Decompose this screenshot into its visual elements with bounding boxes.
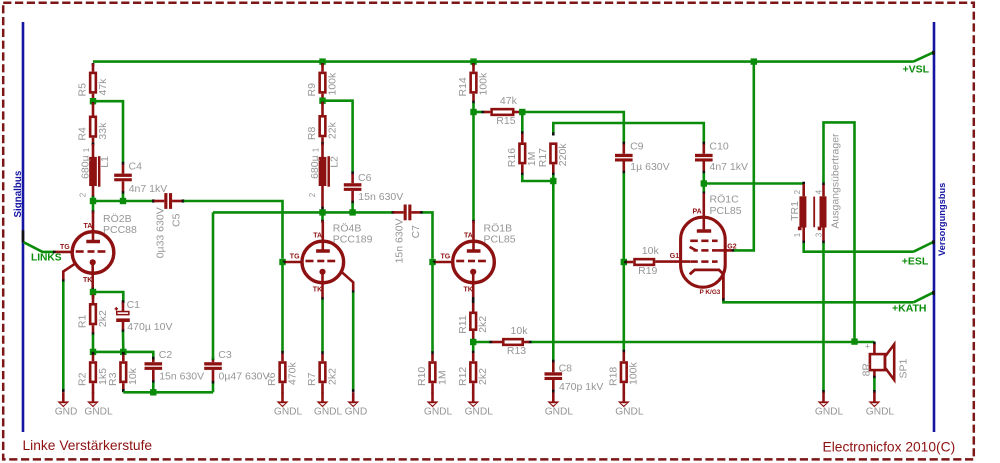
wire TR1 pin3 to GNDL — [822, 243, 825, 391]
wire +KATH — [723, 301, 913, 303]
svg-text:R5: R5 — [77, 83, 89, 97]
svg-text:R10: R10 — [416, 367, 428, 386]
svg-text:GNDL: GNDL — [465, 406, 494, 417]
wire R9/R8 node to C6 — [323, 101, 353, 173]
resistor R3 — [107, 355, 139, 391]
wire cathode node2 bus — [93, 352, 153, 358]
wire speaker to GNDL — [873, 378, 876, 391]
wire tube1 cathode node — [91, 290, 94, 292]
pin tick R18 top — [622, 350, 625, 353]
pin tick R4 top — [92, 102, 95, 105]
svg-text:R19: R19 — [638, 265, 657, 277]
svg-text:C9: C9 — [630, 140, 644, 152]
capacitor C4 — [114, 160, 167, 195]
pin tick C4 top — [122, 162, 125, 165]
svg-text:PCC88: PCC88 — [103, 224, 137, 236]
wire +KATH bus diagonal — [914, 293, 934, 303]
pin tube2 grid — [285, 261, 302, 264]
svg-text:0µ47 630V: 0µ47 630V — [219, 371, 270, 383]
wire R11 node to R13 — [473, 341, 490, 344]
ground GNDL R10 — [424, 392, 453, 417]
junction — [470, 339, 476, 345]
svg-text:Electronicfox 2010(C): Electronicfox 2010(C) — [823, 440, 956, 455]
pin tube1 grid — [56, 251, 73, 254]
ground GND stage1 — [55, 392, 78, 417]
wire C4 to bus — [122, 194, 125, 202]
wire C10 to anode node — [702, 173, 705, 183]
ground GNDL R12 — [465, 392, 494, 417]
resistor R7 — [306, 354, 338, 394]
svg-text:10k: 10k — [127, 367, 139, 385]
wire grid2 down to R6 — [281, 262, 284, 352]
pin tick C5 right — [182, 199, 185, 202]
pin tube1 shield diagonal — [63, 263, 75, 280]
wire G2 to top bus — [734, 62, 754, 251]
pin tick pentode PA — [702, 191, 705, 194]
wire C9 to R19 node — [622, 173, 625, 262]
pin tick C6 top — [351, 171, 354, 174]
capacitor C1 — [115, 299, 173, 333]
pin tick SP1 gnd — [873, 390, 876, 393]
pin tick R15 left — [481, 111, 484, 114]
pin tick R13 left — [489, 341, 492, 344]
bus connection tick +VSL — [932, 51, 935, 55]
svg-text:TA: TA — [84, 223, 93, 230]
pin tick C4 bottom — [122, 191, 125, 194]
wire R11 node to R12 — [472, 342, 475, 352]
pin tick R16 bottom — [521, 173, 524, 176]
ground GNDL R7 — [314, 392, 343, 417]
svg-text:470p 1kV: 470p 1kV — [559, 381, 603, 393]
junction — [550, 178, 556, 184]
svg-text:1: 1 — [793, 232, 802, 237]
pin tick TR1 pin4 — [822, 182, 825, 185]
pin tick TR1 pin3 — [822, 241, 825, 244]
svg-text:C5: C5 — [171, 213, 183, 227]
svg-text:R16: R16 — [506, 148, 518, 167]
pin tick tube1 TK — [91, 288, 94, 291]
svg-text:TR1: TR1 — [789, 201, 801, 221]
svg-text:GNDL: GNDL — [314, 406, 343, 417]
pin tick L1 pin2 — [92, 196, 95, 199]
ground GND stage2 — [345, 392, 368, 417]
wire anode node to TR1 — [704, 182, 804, 185]
resistor R4 — [77, 103, 109, 145]
wire R17 top loop — [553, 123, 704, 142]
junction — [621, 259, 627, 265]
pin tick R9 top — [321, 63, 324, 66]
wire R16 bottom to R17 — [522, 175, 553, 181]
svg-text:R14: R14 — [457, 77, 469, 96]
svg-text:TK: TK — [83, 277, 92, 284]
title Linke Verstärkerstufe — [23, 438, 153, 453]
svg-text:GNDL: GNDL — [866, 406, 895, 417]
svg-text:Signalbus: Signalbus — [13, 170, 24, 217]
bus Versorgungsbus line — [933, 22, 936, 432]
svg-text:8R: 8R — [860, 363, 872, 377]
resistor R18 — [607, 352, 639, 393]
svg-text:TA: TA — [313, 232, 322, 239]
pin tick L2 pin1 — [321, 142, 324, 145]
svg-text:TK: TK — [313, 287, 322, 294]
pin tick C8 bottom — [552, 390, 555, 393]
svg-text:470k: 470k — [286, 361, 298, 385]
pin tick C5 left — [152, 199, 155, 202]
junction — [90, 349, 96, 355]
svg-text:R2: R2 — [77, 372, 89, 386]
svg-text:2k2: 2k2 — [477, 316, 489, 333]
pin tick C7 left — [392, 211, 395, 214]
svg-text:0µ33 630V: 0µ33 630V — [154, 207, 166, 258]
pin tick R16 top — [521, 131, 524, 134]
inductor L1 — [78, 144, 111, 197]
wire anode1 bus left — [93, 200, 153, 203]
junction — [279, 259, 285, 265]
wire C3 riser — [212, 382, 215, 393]
svg-text:2: 2 — [78, 192, 87, 197]
wire L1 to anode bus — [92, 197, 95, 202]
wire +VSL top bus — [93, 60, 914, 63]
capacitor C2 — [145, 349, 205, 383]
pin tick GND stage2 — [352, 389, 355, 392]
wire R5/R4 node to C4 — [93, 101, 123, 162]
resistor R16 — [506, 134, 538, 174]
svg-text:4: 4 — [815, 189, 824, 194]
svg-text:2k2: 2k2 — [477, 368, 489, 385]
junction — [120, 198, 126, 204]
svg-text:470µ 10V: 470µ 10V — [127, 321, 172, 333]
svg-text:R13: R13 — [507, 345, 526, 357]
pin tick C7 right — [420, 211, 423, 214]
pin tick R10 top — [431, 351, 434, 354]
resistor R9 — [306, 64, 338, 100]
svg-text:GNDL: GNDL — [424, 406, 453, 417]
svg-text:R8: R8 — [306, 127, 318, 141]
svg-text:GNDL: GNDL — [274, 406, 303, 417]
pin tick tube2 TK — [321, 297, 324, 300]
svg-text:R3: R3 — [107, 372, 119, 386]
svg-text:10k: 10k — [642, 245, 660, 257]
svg-text:C6: C6 — [358, 172, 372, 184]
bus Versorgungsbus label — [937, 183, 947, 256]
wire C3 to grid bus2 — [212, 212, 215, 359]
svg-text:15n 630V: 15n 630V — [394, 218, 406, 263]
net label +KATH — [892, 302, 927, 314]
junction — [349, 209, 355, 215]
ground GNDL R18 — [615, 392, 644, 417]
resistor R6 — [266, 354, 298, 394]
capacitor C6 — [344, 172, 403, 203]
svg-text:PA: PA — [693, 208, 702, 215]
pin tick R1 top — [92, 295, 95, 298]
svg-text:TG: TG — [60, 244, 70, 251]
pin tube2 shield diagonal — [340, 271, 353, 291]
pin tick tube1 TA — [92, 210, 95, 213]
svg-text:TG: TG — [441, 254, 451, 261]
net label +VSL — [903, 63, 930, 75]
pin tick TR1 pin1 — [802, 241, 805, 244]
svg-text:L1: L1 — [99, 156, 111, 168]
pin tick C10 top — [702, 142, 705, 145]
bus connection tick LINKS — [22, 230, 25, 242]
bus Signalbus line — [22, 22, 25, 432]
svg-text:C8: C8 — [559, 363, 573, 375]
svg-text:2: 2 — [793, 189, 802, 194]
wire C7 to tube3 grid — [423, 212, 433, 258]
pin tick tube3 TG — [433, 261, 436, 264]
svg-text:L2: L2 — [328, 156, 340, 168]
ground GNDL TR1 — [815, 392, 844, 417]
resistor R11 — [457, 313, 489, 340]
svg-text:R17: R17 — [537, 148, 549, 167]
svg-text:R6: R6 — [266, 372, 278, 386]
svg-text:680µ: 680µ — [79, 155, 91, 179]
pin tick SP1 minus — [873, 376, 876, 379]
pin tick R2 top — [92, 352, 95, 355]
pin tick TR1 gnd — [822, 390, 825, 393]
resistor R12 — [457, 353, 489, 394]
resistor R5 — [77, 64, 109, 102]
svg-text:2k2: 2k2 — [97, 310, 109, 327]
pin tick R14 top — [472, 63, 475, 66]
pin tube3 grid — [435, 261, 452, 264]
wire R19 node to R18 — [622, 262, 625, 351]
wire R1 to node2 — [92, 335, 95, 352]
capacitor C3 — [204, 349, 269, 383]
capacitor C8 — [545, 362, 604, 393]
pin tick R13 right — [529, 341, 532, 344]
wire stage1 gnd bus — [123, 391, 213, 394]
svg-text:R15: R15 — [496, 115, 515, 127]
pin tick tube3 TK — [472, 297, 475, 300]
pin tick tube2 TG — [283, 261, 286, 264]
net label +ESL — [902, 255, 929, 267]
junction — [319, 58, 325, 64]
svg-text:PCL85: PCL85 — [484, 234, 516, 246]
pin tick C10 bottom — [702, 171, 705, 174]
pin tick C9 top — [622, 142, 625, 145]
wire +ESL bus diagonal — [914, 242, 934, 252]
svg-text:1M: 1M — [436, 370, 448, 385]
svg-text:47k: 47k — [500, 95, 518, 107]
svg-text:680µ: 680µ — [309, 155, 321, 179]
svg-text:22k: 22k — [326, 121, 338, 139]
pin tick L1 pin1 — [92, 143, 95, 146]
svg-text:C7: C7 — [410, 225, 422, 239]
pin tube3 cathode to R11 — [472, 300, 475, 312]
resistor R2 — [77, 355, 109, 394]
pin tick R7 top — [321, 351, 324, 354]
pin tick tube1 TG — [53, 251, 56, 254]
svg-text:GNDL: GNDL — [84, 406, 113, 417]
wire TR1 pin4 loop — [824, 122, 855, 341]
resistor R1 — [77, 295, 109, 334]
svg-text:4n7 1kV: 4n7 1kV — [129, 183, 168, 195]
svg-text:TG: TG — [290, 254, 300, 261]
resistor R17 — [537, 143, 569, 174]
junction — [470, 109, 476, 115]
title Electronicfox 2010(C) — [823, 440, 956, 455]
capacitor C5 — [154, 193, 183, 258]
wire C1 to node2 — [122, 332, 125, 352]
wire R15 to C9 — [522, 112, 624, 142]
pin tick R12 top — [472, 351, 475, 354]
pin tick C3 bottom — [212, 380, 215, 383]
tube RO1C pentode — [655, 193, 741, 299]
svg-text:C2: C2 — [159, 349, 173, 361]
transformer TR1 — [789, 133, 842, 242]
svg-text:GNDL: GNDL — [545, 406, 574, 417]
wire shield1 to GND — [62, 282, 65, 391]
resistor R13 — [492, 325, 530, 357]
bus connection tick +KATH — [932, 291, 935, 295]
svg-text:PCC189: PCC189 — [333, 234, 373, 246]
svg-text:R18: R18 — [607, 367, 619, 386]
pin tick R11 top — [472, 300, 475, 303]
svg-text:TA: TA — [464, 232, 473, 239]
pin tick C2 top — [152, 357, 155, 360]
pin tick L2 pin2 — [321, 207, 324, 210]
pin tick C3 top — [212, 357, 215, 360]
svg-text:1µ 630V: 1µ 630V — [630, 161, 669, 173]
wire C2 to gnd bus — [152, 383, 155, 393]
junction — [150, 389, 156, 395]
svg-text:220k: 220k — [557, 143, 569, 167]
pin tick C2 bottom — [152, 380, 155, 383]
junction — [751, 58, 757, 64]
svg-text:C3: C3 — [218, 349, 232, 361]
pin tick C9 bottom — [622, 171, 625, 174]
svg-text:10k: 10k — [511, 325, 529, 337]
junction — [120, 349, 126, 355]
capacitor C10 — [695, 140, 748, 173]
pin tick tube1 shield — [62, 279, 65, 282]
junction — [701, 180, 707, 186]
ground GNDL SP1 — [866, 392, 895, 417]
pin tick C1 bottom — [122, 329, 125, 332]
pin tick tube2 shield — [352, 290, 355, 293]
resistor R15 — [484, 95, 521, 127]
capacitor C7 — [393, 205, 422, 264]
svg-text:Ausgangsübertrager: Ausgangsübertrager — [830, 133, 842, 229]
pin tick R8 top — [321, 102, 324, 105]
wire anode2 junction to TA pin — [321, 212, 324, 220]
svg-text:GND: GND — [345, 406, 368, 417]
svg-text:PCL85: PCL85 — [710, 205, 742, 217]
pin tick pentode K/G3 — [722, 298, 725, 301]
pin tick R6 top — [281, 351, 284, 354]
pin tick R17 top — [552, 132, 555, 135]
svg-text:1: 1 — [82, 147, 91, 152]
junction — [470, 58, 476, 64]
svg-text:+VSL: +VSL — [903, 63, 930, 75]
junction — [429, 259, 435, 265]
svg-text:R1: R1 — [77, 315, 89, 329]
wire R13 to speaker — [532, 341, 875, 344]
pin tick C8 top — [552, 360, 555, 363]
resistor R10 — [416, 354, 448, 394]
pin tick R5 top — [92, 63, 95, 66]
svg-text:Versorgungsbus: Versorgungsbus — [937, 183, 947, 256]
capacitor C9 — [615, 140, 670, 173]
pin tick R3 top — [122, 352, 125, 355]
pin tick R17 bottom — [552, 173, 555, 176]
svg-text:15n 630V: 15n 630V — [358, 191, 403, 203]
pin tick C1 top — [122, 300, 125, 303]
svg-text:R7: R7 — [306, 372, 318, 386]
wire tube2 cathode to R7 — [321, 300, 324, 353]
wire +VSL bus entry diagonal — [914, 52, 934, 61]
wire cathode1 to C1 — [93, 292, 123, 303]
svg-text:SP1: SP1 — [897, 358, 909, 378]
junction — [519, 109, 525, 115]
pin tick R19 left — [624, 261, 627, 264]
junction — [90, 98, 96, 104]
svg-text:C1: C1 — [127, 299, 141, 311]
svg-text:100k: 100k — [477, 72, 489, 96]
svg-text:R11: R11 — [457, 315, 469, 334]
pin tick tube2 TA — [321, 220, 324, 223]
wire node to tube3 anode — [472, 112, 475, 221]
svg-text:4n7 1kV: 4n7 1kV — [710, 161, 749, 173]
pin tick tube3 TA — [472, 220, 475, 223]
svg-text:+KATH: +KATH — [892, 302, 927, 314]
svg-text:C4: C4 — [129, 160, 143, 172]
svg-text:LINKS: LINKS — [31, 253, 62, 264]
pin tick R15 right — [519, 111, 522, 114]
svg-text:Linke Verstärkerstufe: Linke Verstärkerstufe — [23, 438, 153, 453]
speaker SP1 — [860, 341, 909, 380]
wire R15R16 node down — [521, 112, 524, 132]
pin tick pentode G2 — [732, 249, 735, 252]
svg-text:2: 2 — [308, 192, 317, 197]
wire +ESL — [804, 243, 914, 252]
pin tick GND stage1 — [62, 389, 65, 392]
tube RO1B — [441, 221, 516, 298]
svg-text:3: 3 — [815, 232, 824, 237]
svg-text:47k: 47k — [97, 78, 109, 96]
svg-text:C10: C10 — [709, 140, 728, 152]
junction — [319, 98, 325, 104]
resistor R19 — [627, 245, 660, 277]
resistor R14 — [457, 64, 489, 102]
pin tick R3 bottom — [122, 389, 125, 392]
wire anode node down — [702, 184, 705, 192]
svg-text:R4: R4 — [77, 127, 89, 141]
svg-text:R9: R9 — [306, 83, 318, 97]
wire R17 bottom to C8 — [552, 175, 555, 361]
svg-text:GNDL: GNDL — [815, 406, 844, 417]
tube RO2B — [60, 212, 137, 289]
ground GNDL R6 — [274, 392, 303, 417]
junction — [90, 289, 96, 295]
wire anode1 junction to TA pin — [92, 201, 95, 211]
wire C6 to bus — [351, 203, 354, 212]
pin tick TR1 pin2 — [802, 182, 805, 185]
pin tick R11 bottom — [472, 339, 475, 342]
svg-text:GNDL: GNDL — [615, 406, 644, 417]
net label LINKS — [31, 253, 62, 264]
svg-text:100k: 100k — [326, 72, 338, 96]
wire grid3 down to R10 — [431, 262, 434, 352]
svg-text:+ESL: +ESL — [902, 255, 929, 267]
pin tick R9 bottom — [321, 98, 324, 101]
pin tick C6 bottom — [351, 201, 354, 204]
ground GNDL R2 — [84, 392, 113, 417]
inductor L2 — [308, 144, 341, 208]
svg-text:+: + — [865, 341, 870, 351]
svg-text:P K/G3: P K/G3 — [700, 289, 721, 296]
